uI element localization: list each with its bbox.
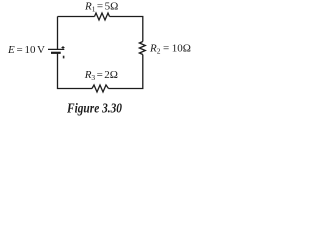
svg-text:R2 = 10Ω: R2 = 10Ω <box>149 42 191 55</box>
wire right-lower segment <box>109 55 143 89</box>
wire bottom-left segment <box>58 53 93 88</box>
voltage source E (battery) <box>48 46 65 58</box>
wire top-left segment <box>58 16 95 18</box>
resistor R3 <box>92 85 109 92</box>
svg-text:Figure 3.30: Figure 3.30 <box>66 102 122 117</box>
resistor R1 <box>95 13 110 20</box>
svg-text:R1 = 5Ω: R1 = 5Ω <box>84 0 118 13</box>
wire top-right segment <box>110 17 143 42</box>
wire left-upper segment <box>57 17 59 50</box>
svg-text:E = 10 V: E = 10 V <box>7 44 45 56</box>
resistor R2 <box>139 42 145 55</box>
svg-text:R3 = 2Ω: R3 = 2Ω <box>84 69 118 82</box>
